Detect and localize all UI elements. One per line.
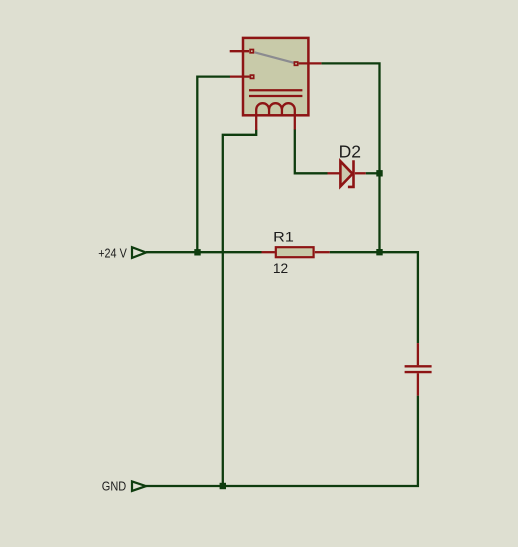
wire: relay coil left pin down-left to GND rail (223, 130, 256, 487)
diode D2 anode lead (328, 172, 341, 174)
diode D2 cathode bar with foot (348, 160, 354, 187)
capacitor upper lead (417, 343, 419, 365)
relay pin 2 lead (299, 62, 322, 64)
GND terminal (132, 481, 146, 491)
wire: relay coil right pin down to diode D2 (295, 129, 328, 173)
wire: capacitor bottom to GND row, left to GND terminal (146, 396, 418, 486)
diode D2 cathode lead (355, 172, 366, 174)
junction: right rail / +24V row (376, 249, 382, 255)
relay switch blade (255, 52, 295, 63)
relay pin 2 terminal square (common) (294, 62, 297, 65)
wire: diode D2 output to right rail (366, 172, 380, 174)
relay pin 1 terminal square (250, 50, 253, 53)
wire: left rail from relay pin to +24V row (197, 77, 230, 253)
relay pin 3 lead (230, 75, 250, 77)
relay coil pin right (294, 115, 296, 130)
capacitor top plate (405, 365, 432, 367)
diode D2 triangle (340, 161, 352, 186)
resistor R1 left lead (262, 251, 275, 253)
resistor R1 right lead (315, 251, 330, 253)
capacitor lower lead (417, 373, 419, 395)
svg-text:R1: R1 (273, 229, 294, 245)
svg-text:D2: D2 (339, 141, 361, 161)
wire: +24V terminal to R1 (146, 251, 262, 253)
resistor R1 body (276, 247, 314, 257)
svg-text:+24 V: +24 V (98, 246, 127, 260)
relay coil pin left (255, 115, 257, 130)
relay body (243, 38, 308, 115)
svg-text:GND: GND (102, 480, 126, 494)
relay coil arcs (256, 103, 295, 115)
relay pin 1 (NC contact, unconnected stub) (230, 50, 249, 52)
capacitor bottom plate (405, 371, 432, 373)
svg-text:12: 12 (273, 260, 289, 276)
junction: GND rail / GND row (220, 483, 226, 489)
relay pin 3 terminal square (250, 75, 253, 78)
wire: R1 output to far right rail, down to capacitor (330, 252, 418, 343)
relay core line 1 (249, 89, 302, 91)
junction: D2 cathode / right rail (376, 170, 382, 176)
+24V input terminal (132, 247, 146, 258)
relay core line 2 (249, 95, 302, 97)
junction: relay pin 2 / +24V row (194, 249, 200, 255)
wire: relay switch output to right rail (321, 63, 379, 252)
